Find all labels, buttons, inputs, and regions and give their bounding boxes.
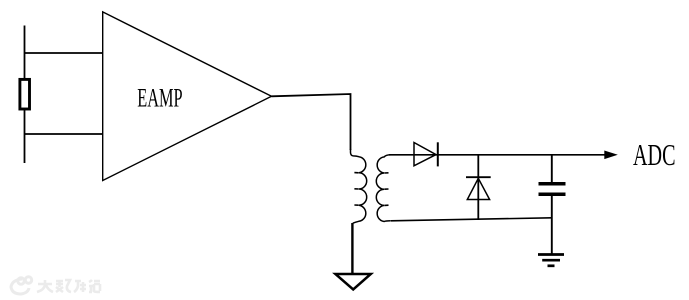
svg-text:ADC: ADC (633, 138, 676, 172)
svg-text:EAMP: EAMP (137, 84, 182, 113)
